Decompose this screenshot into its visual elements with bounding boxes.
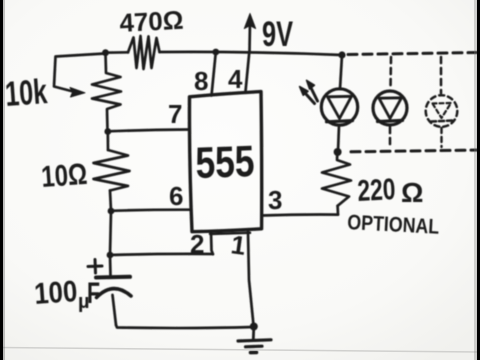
wire: LED1 cathode to junction bbox=[338, 126, 339, 153]
svg-text:470Ω: 470Ω bbox=[119, 5, 184, 38]
wire: dashed bottom rail extension bbox=[351, 150, 480, 152]
wire: pin 8 stub bbox=[212, 52, 216, 96]
LED D1 triangle bbox=[328, 96, 352, 118]
svg-text:2: 2 bbox=[190, 229, 204, 259]
wire: bottom ground rail bbox=[116, 325, 254, 328]
video letterbox bar left bbox=[0, 0, 3, 360]
LED D3 dashed triangle bbox=[433, 103, 452, 118]
wire: pin 4 stub bbox=[246, 52, 250, 92]
node H: junction top rail / LED1 anode bbox=[338, 51, 345, 58]
LED D3 dashed circle (optional) bbox=[426, 95, 458, 127]
svg-text:10k: 10k bbox=[4, 72, 49, 114]
IC bottom double-drawn edge bbox=[210, 233, 250, 234]
ground symbol bbox=[252, 327, 255, 340]
wire: loop from top rail to pot wiper bbox=[54, 54, 105, 92]
IC U1 555 body bbox=[189, 92, 261, 232]
node G: junction LED1 cathode / 220Ω top bbox=[334, 148, 342, 156]
svg-text:4: 4 bbox=[228, 64, 243, 94]
wire: stub from IC bottom to pin2 wire bbox=[211, 232, 213, 255]
svg-text:10Ω: 10Ω bbox=[40, 158, 88, 194]
svg-text:6: 6 bbox=[169, 181, 183, 211]
wire: dashed drop to LED2 anode bbox=[389, 57, 392, 88]
LED D1 light arrows bbox=[306, 88, 318, 104]
LED D2 cathode bar bbox=[378, 120, 403, 121]
wire: pin 1 from IC bottom down to ground rail bbox=[248, 232, 254, 326]
capacitor C1 plus sign bbox=[88, 260, 102, 274]
resistor R1 470Ω (zigzag, top) bbox=[128, 36, 160, 69]
wire: pin 2 horizontal bbox=[110, 254, 213, 255]
svg-text:F: F bbox=[87, 277, 100, 310]
wire: left rail pot-bottom to 10Ω bbox=[106, 132, 109, 151]
LED D1 circle bbox=[321, 89, 357, 125]
svg-text:OPTIONAL: OPTIONAL bbox=[347, 211, 440, 239]
LED D2 triangle bbox=[379, 98, 402, 119]
node A: junction top rail / 10k pot top bbox=[102, 49, 109, 56]
LED D1 cathode bar bbox=[327, 121, 353, 122]
wire: dashed LED3 cathode stub bbox=[440, 128, 442, 147]
svg-text:3: 3 bbox=[268, 185, 282, 215]
svg-text:555: 555 bbox=[195, 137, 256, 188]
svg-text:9V: 9V bbox=[262, 15, 293, 54]
wire: pin 7 horizontal bbox=[108, 130, 189, 132]
wire: top rail junction down to LED1 bbox=[340, 55, 342, 89]
wire: 220Ω bottom stub bbox=[336, 206, 339, 215]
node B: junction pot bottom / pin7 wire bbox=[104, 128, 111, 135]
resistor R3 10Ω (zigzag) bbox=[94, 150, 130, 191]
potentiometer R2 10k body (zigzag) bbox=[92, 53, 121, 131]
svg-text:8: 8 bbox=[194, 66, 208, 96]
svg-text:7: 7 bbox=[168, 99, 182, 129]
scan artifact: faint page line near bottom bbox=[0, 348, 480, 353]
svg-text:220: 220 bbox=[357, 173, 397, 208]
value label 100µF bbox=[33, 275, 100, 313]
wire: pin 6 horizontal bbox=[111, 210, 189, 211]
node C: junction pin 6 bbox=[108, 208, 115, 215]
LED D2 circle bbox=[373, 91, 407, 125]
wire: rail junction to capacitor plate bbox=[109, 255, 112, 277]
wire: dashed top rail extension bbox=[348, 53, 480, 55]
node E: junction pin 8 on top rail bbox=[212, 49, 219, 56]
wire: rail 10Ω bottom to pin6 junction bbox=[110, 191, 111, 212]
value label 220Ω bbox=[357, 173, 424, 208]
wire: rail pin6 to pin2 junction bbox=[110, 211, 111, 255]
capacitor C1 bottom plate (curved) bbox=[97, 289, 132, 298]
svg-text:100: 100 bbox=[33, 275, 78, 311]
svg-text:Ω: Ω bbox=[401, 177, 423, 208]
node F: junction bottom rail / ground bbox=[250, 323, 258, 331]
wire: dashed LED2 cathode drop bbox=[389, 127, 392, 149]
power supply 9V arrow bbox=[248, 22, 251, 51]
LED D3 dashed cathode bar bbox=[431, 121, 453, 122]
resistor R4 220Ω (zigzag) bbox=[322, 152, 351, 206]
wire: top positive rail from left junction to LED junction bbox=[105, 52, 342, 55]
wire: capacitor bottom to bottom rail corner bbox=[113, 295, 117, 325]
video letterbox bar right bbox=[477, 0, 480, 360]
wire: dashed drop to LED3 anode bbox=[440, 57, 443, 93]
capacitor C1 100µF top plate bbox=[96, 275, 130, 280]
node D: junction pin 2 / capacitor top bbox=[107, 252, 114, 259]
wiper arrowhead of potentiometer bbox=[70, 88, 85, 98]
wire: pin 3 horizontal to 220Ω bbox=[262, 213, 338, 217]
